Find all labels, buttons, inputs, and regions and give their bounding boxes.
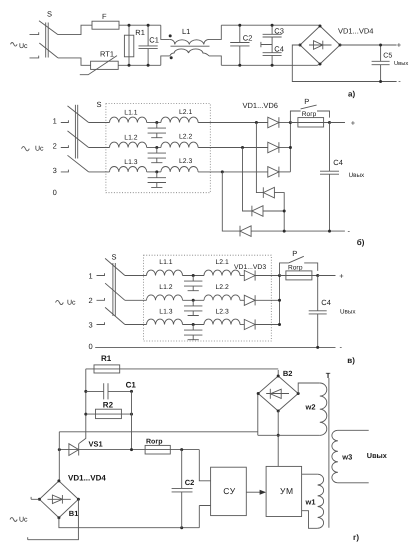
wire phase 3 b [89, 171, 110, 173]
node row2 cap junction [155, 146, 158, 149]
winding w1 [302, 474, 324, 528]
svg-text:C2: C2 [243, 34, 253, 43]
wire bottom pole to RT1 [58, 58, 91, 65]
diode VD2 [268, 142, 291, 153]
node bus top / Rogr left [289, 121, 292, 124]
svg-text:C1: C1 [149, 36, 159, 45]
capacitor row1 b [148, 123, 166, 138]
dotted filter box v [144, 255, 272, 341]
node C2 top [238, 24, 241, 27]
node C5 top [379, 44, 382, 47]
node Rogr right / C2 top [180, 448, 183, 451]
plus wire b [330, 122, 345, 124]
AC source Uc label [11, 43, 29, 50]
AC source Uc label b [22, 146, 45, 153]
resistor R2 g [86, 401, 132, 419]
terminal phase 2 v [97, 298, 105, 300]
terminal phase 1 [61, 120, 69, 122]
svg-text:VD1...VD4: VD1...VD4 [68, 474, 106, 483]
svg-text:P: P [304, 97, 309, 106]
node row2 cap junction v [192, 299, 195, 302]
bottom rail after L1 [221, 64, 320, 65]
svg-text:в): в) [347, 356, 355, 365]
capacitor row1 v [184, 276, 202, 291]
svg-text:2: 2 [53, 142, 57, 151]
wire phase3 to VD3 [240, 324, 244, 326]
node Rogr right / C4 top v [316, 274, 319, 277]
inductor L1.2 [110, 134, 147, 147]
inductor L2.3 [161, 158, 198, 172]
svg-text:-: - [348, 226, 351, 235]
inductor L1.1 [110, 110, 147, 123]
svg-text:RT1: RT1 [100, 50, 114, 59]
winding w3 [332, 430, 369, 483]
wire phase 3 to diodes [198, 171, 268, 173]
node C1 top [147, 24, 150, 27]
diode VD5 [243, 148, 285, 217]
resistor R1 [124, 25, 144, 65]
wire L1.2 to L2.2 [147, 147, 161, 149]
resistor Rogr b [290, 111, 345, 127]
cathode bus v [279, 276, 281, 325]
node C1 right g [130, 390, 133, 393]
wire phase 2 v [125, 299, 147, 301]
svg-text:T: T [326, 371, 331, 380]
bridge B2 [257, 369, 300, 412]
svg-text:+: + [339, 271, 344, 280]
node R1 bottom [128, 64, 131, 67]
svg-text:VD1...VD3: VD1...VD3 [234, 264, 266, 271]
node C4 bottom v [316, 346, 319, 349]
power amplifier UM [266, 466, 302, 516]
node Rogr right / C4 top [328, 121, 331, 124]
diode VD6 [222, 172, 345, 237]
svg-text:S: S [47, 10, 52, 19]
capacitor C2 g [172, 450, 195, 528]
wire to L2.1 v [183, 275, 205, 277]
inductor L2.1 v [204, 259, 240, 275]
svg-text:-: - [398, 76, 401, 85]
node row1 cap junction v [192, 274, 195, 277]
node C1 left g [84, 390, 87, 393]
svg-text:S: S [97, 100, 102, 109]
node bus row3 v [278, 323, 281, 326]
svg-text:2: 2 [89, 296, 93, 305]
AC source Uc label g [10, 517, 28, 524]
svg-text:C5: C5 [383, 53, 392, 60]
node C1 bottom [147, 64, 150, 67]
node VD6 takeoff [221, 170, 224, 173]
capacitor C4 [263, 44, 284, 65]
node anode bus / minus rail [283, 230, 286, 233]
capacitor row3 b [148, 172, 166, 188]
node bus row2 [289, 146, 292, 149]
svg-text:-: - [340, 343, 343, 352]
svg-text:L1.1: L1.1 [124, 110, 137, 117]
svg-text:L1.3: L1.3 [159, 308, 172, 315]
switch S v [105, 253, 125, 325]
minus return wire [292, 45, 396, 82]
wire phase 2 to diodes [198, 147, 268, 149]
svg-text:L2.1: L2.1 [179, 109, 192, 116]
svg-text:C4: C4 [333, 158, 343, 167]
left bus to gate [79, 369, 86, 444]
capacitor row2 v [184, 300, 202, 315]
svg-text:3: 3 [53, 166, 57, 175]
svg-text:0: 0 [89, 342, 93, 351]
svg-text:Uc: Uc [19, 43, 28, 50]
AC source stub g [31, 497, 39, 499]
wires to SU block [199, 450, 210, 528]
svg-text:L2.2: L2.2 [179, 134, 192, 141]
svg-text:C4: C4 [274, 44, 284, 53]
node R1 top [128, 24, 131, 27]
inductor L1.1 v [147, 259, 183, 275]
diode VD2 v [244, 295, 279, 305]
svg-text:Uвых: Uвых [394, 61, 408, 67]
svg-text:C1: C1 [126, 380, 137, 389]
svg-text:Uвых: Uвых [340, 309, 356, 316]
svg-text:УМ: УМ [280, 486, 294, 496]
switch S [39, 10, 58, 58]
svg-text:w1: w1 [305, 498, 316, 507]
cathode bus upper diodes [289, 123, 291, 172]
wire phase 2 b [89, 147, 110, 149]
switch S b [68, 100, 102, 172]
svg-text:+: + [397, 41, 402, 50]
node VD5 takeoff [241, 146, 244, 149]
wire phase 1 b [89, 122, 110, 124]
terminal phase 3 [61, 170, 69, 172]
svg-text:R2: R2 [103, 401, 114, 410]
winding w2 [258, 383, 327, 435]
svg-text:СУ: СУ [223, 486, 235, 496]
inductor L2.3 v [204, 308, 240, 324]
source terminal top [30, 32, 39, 34]
svg-text:F: F [102, 12, 107, 21]
node row1 cap junction [155, 121, 158, 124]
capacitor C4 b [320, 123, 343, 232]
diode VD3 [268, 167, 291, 178]
svg-text:w3: w3 [341, 453, 352, 462]
svg-text:L1.2: L1.2 [159, 284, 172, 291]
terminal phase 1 v [97, 273, 105, 275]
node C2 bottom [238, 64, 241, 67]
wire L1.1 to L2.1 [147, 122, 161, 124]
right bus C1/R2 [131, 391, 133, 449]
node C3 top [271, 24, 274, 27]
capacitor C4 v [309, 276, 331, 348]
capacitor C2 [230, 25, 252, 65]
svg-text:а): а) [348, 90, 355, 99]
node w2 return [277, 434, 280, 437]
inductor L1.3 [110, 159, 147, 172]
rail to B2 AC input [59, 394, 257, 450]
svg-text:L2.1: L2.1 [216, 259, 229, 266]
svg-text:VD1...VD4: VD1...VD4 [338, 27, 373, 36]
fuse F [92, 12, 161, 29]
capacitor row2 b [148, 148, 166, 163]
svg-text:0: 0 [53, 188, 57, 197]
diode VD3 v [244, 319, 279, 329]
diode VD4 [256, 123, 284, 232]
neutral wire v [95, 346, 335, 348]
resistor Rogr v [280, 265, 318, 280]
node bus row1 v [278, 274, 281, 277]
svg-text:Uвых: Uвых [349, 172, 365, 179]
svg-text:г): г) [353, 533, 359, 542]
control unit SU [211, 467, 247, 515]
svg-text:R1: R1 [101, 354, 112, 363]
common-mode choke L1 [161, 25, 222, 65]
bridge B1 [38, 450, 106, 520]
top rail after L1 [221, 24, 320, 26]
svg-text:б): б) [357, 238, 365, 247]
resistor Rogr g [145, 438, 170, 454]
node R2 right g [130, 413, 133, 416]
node row3 cap junction v [192, 323, 195, 326]
wire phase 1 to diodes [198, 122, 268, 124]
node C4 bottom b [328, 230, 331, 233]
capacitor C3 [263, 25, 284, 37]
node C2 bottom [180, 526, 183, 529]
AC source Uc label v [56, 299, 77, 306]
capacitor row3 v [184, 325, 202, 340]
wire phase 3 v [125, 324, 147, 326]
capacitor C1 g [86, 380, 137, 399]
svg-text:L2.2: L2.2 [216, 284, 229, 291]
svg-text:L2.3: L2.3 [179, 158, 192, 165]
inductor L2.1 [161, 109, 198, 123]
wire L1.3 to L2.3 [147, 171, 161, 173]
AC return path g [28, 499, 79, 539]
svg-text:Uc: Uc [35, 146, 44, 153]
arrow SU to UM [246, 490, 266, 495]
midpoint tap of C3/C4 [261, 37, 272, 53]
node R2 left g [84, 413, 87, 416]
svg-text:1: 1 [53, 117, 57, 126]
svg-text:B1: B1 [69, 509, 79, 518]
node bus row2 v [278, 299, 281, 302]
svg-text:S: S [112, 253, 117, 262]
node row3 cap junction [155, 170, 158, 173]
svg-text:P: P [292, 249, 297, 258]
bypass contact P b [290, 97, 329, 122]
terminal phase 3 v [97, 322, 105, 324]
svg-text:Uc: Uc [19, 517, 28, 524]
inductor L2.2 [161, 134, 198, 148]
svg-text:+: + [351, 118, 356, 127]
node VS1 anode [58, 448, 61, 451]
capacitor C1 [139, 25, 159, 65]
svg-text:Rогр: Rогр [146, 438, 163, 445]
svg-text:Rогр: Rогр [302, 111, 317, 118]
bypass contact P v [280, 249, 318, 276]
svg-text:B2: B2 [283, 369, 293, 378]
thyristor VS1 [59, 439, 199, 455]
svg-text:L1.1: L1.1 [159, 259, 172, 266]
node C5 bottom [379, 80, 382, 83]
thermistor RT1 [80, 50, 161, 75]
node C4 bottom [271, 64, 274, 67]
svg-text:L1.2: L1.2 [124, 134, 137, 141]
svg-text:C2: C2 [185, 478, 195, 487]
resistor R1 g [86, 354, 278, 373]
diode VD1 [268, 117, 291, 128]
svg-text:C4: C4 [321, 298, 331, 307]
transformer T core [326, 371, 331, 528]
svg-text:1: 1 [89, 271, 93, 280]
source terminal bottom [30, 56, 39, 58]
svg-text:Uвых: Uвых [367, 451, 387, 460]
wire top pole to fuse [58, 25, 92, 34]
wire to L2.2 v [183, 299, 205, 301]
plus wire v [318, 275, 336, 277]
terminal phase 2 [61, 145, 69, 147]
svg-text:3: 3 [89, 320, 93, 329]
dotted filter box b [106, 104, 210, 193]
wire phase 1 v [125, 275, 147, 277]
wire to L2.3 v [183, 324, 205, 326]
inductor L1.3 v [147, 308, 183, 324]
svg-text:w2: w2 [305, 403, 316, 412]
svg-text:Uc: Uc [67, 299, 76, 306]
wire B2 bottom to UM [277, 411, 279, 466]
svg-text:VD1...VD6: VD1...VD6 [243, 101, 278, 110]
inductor L2.2 v [204, 284, 240, 300]
inductor L1.2 v [147, 284, 183, 300]
node VD5 anode bus [283, 210, 286, 213]
node VD4 takeoff [255, 121, 258, 124]
node VS1 cathode / bus [130, 448, 133, 451]
svg-text:R1: R1 [135, 28, 145, 37]
bridge rectifier VD1...VD4 [299, 25, 374, 66]
wire phase1 to VD1 [240, 275, 244, 277]
minus rail g [59, 518, 199, 528]
svg-text:L1.3: L1.3 [124, 159, 137, 166]
plus output wire [340, 44, 397, 46]
wire phase2 to VD2 [240, 299, 244, 301]
svg-text:L1: L1 [182, 27, 190, 36]
diode VD1 v [244, 270, 279, 280]
capacitor C5 [372, 45, 393, 82]
svg-text:L2.3: L2.3 [216, 308, 229, 315]
svg-text:VS1: VS1 [89, 439, 103, 448]
